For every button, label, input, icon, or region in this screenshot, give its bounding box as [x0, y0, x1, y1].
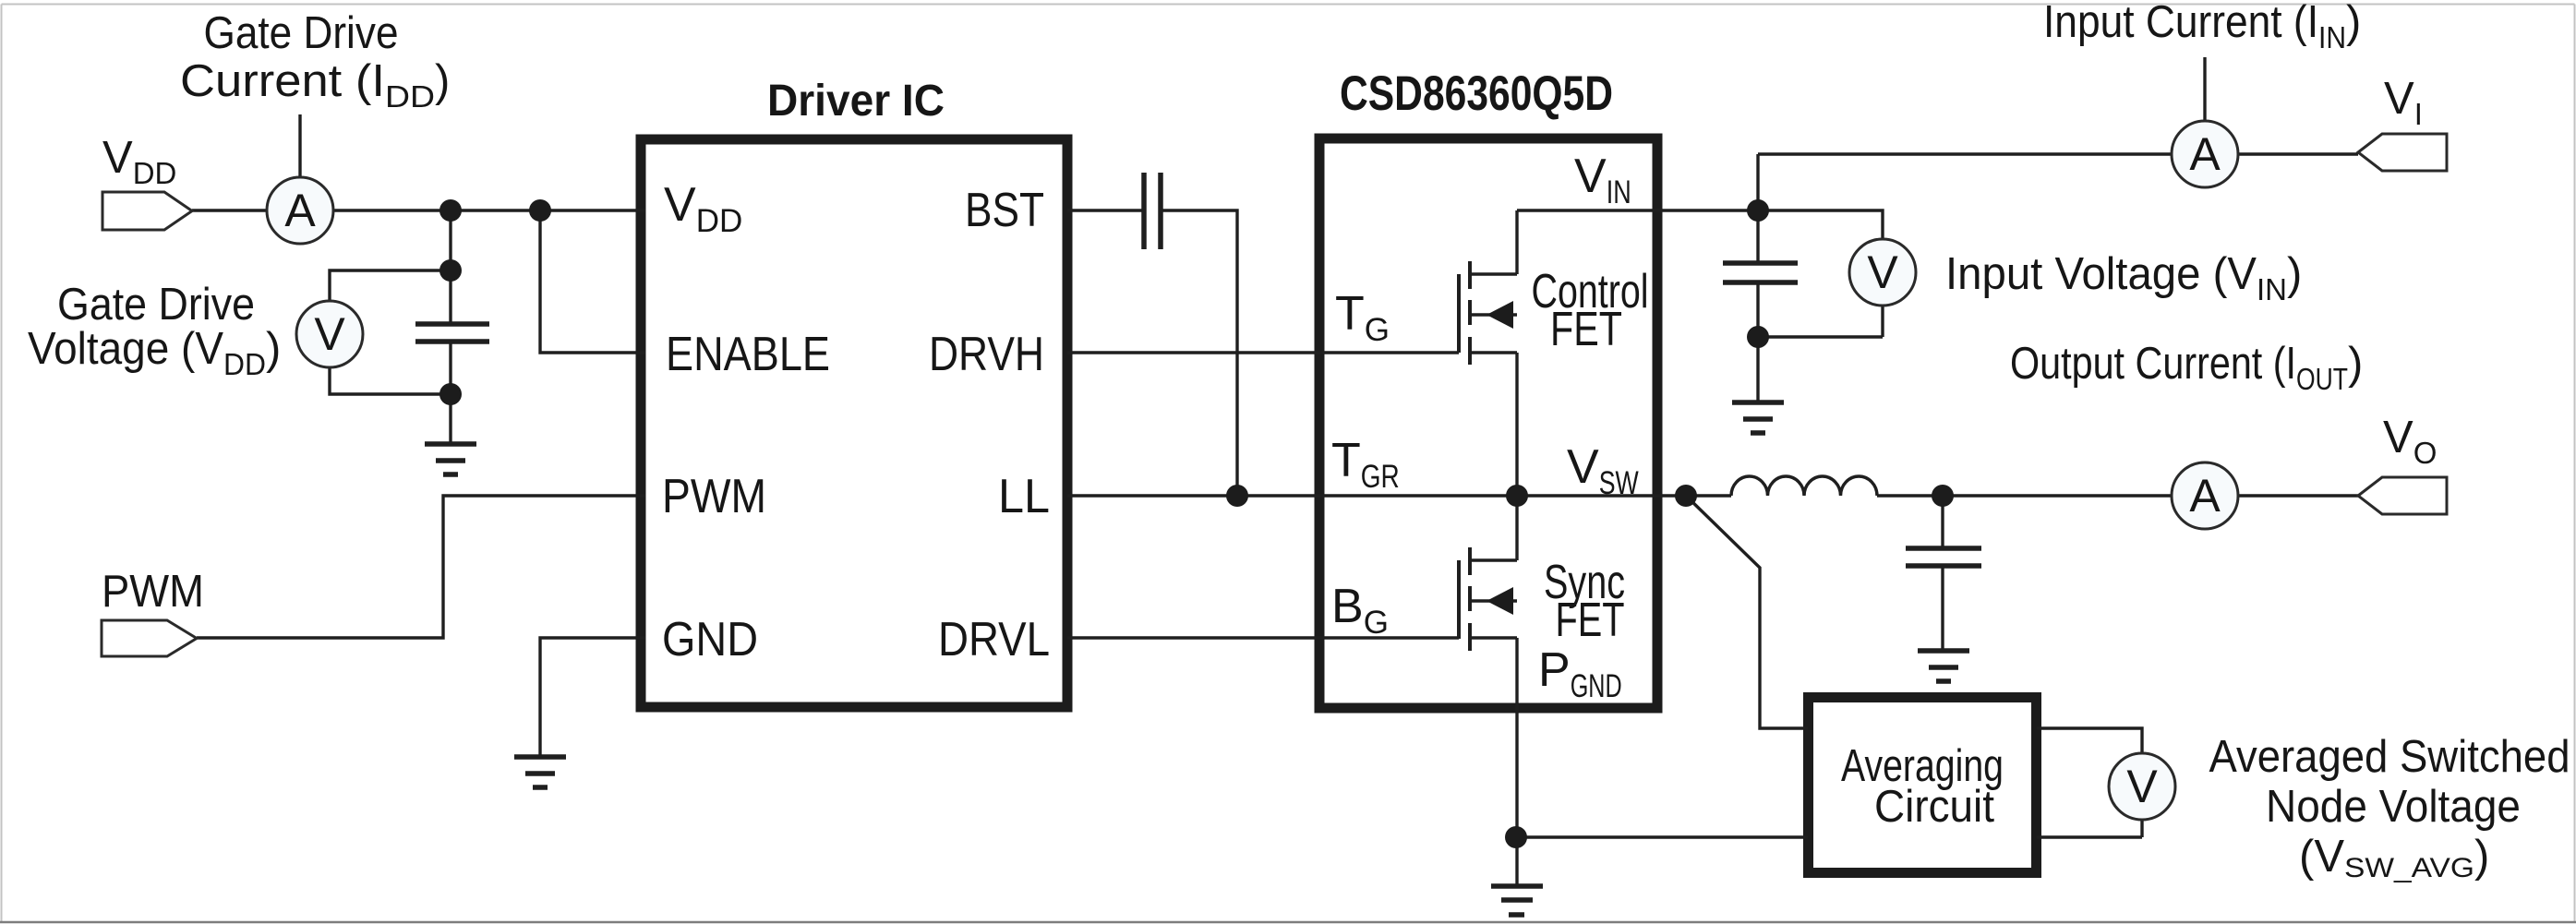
svg-text:Input Voltage (VIN): Input Voltage (VIN) — [1945, 249, 2302, 306]
svg-text:GND: GND — [662, 613, 758, 666]
svg-text:LL: LL — [998, 470, 1050, 523]
svg-text:Circuit: Circuit — [1874, 782, 1994, 832]
svg-text:CSD86360Q5D: CSD86360Q5D — [1340, 66, 1613, 121]
svg-text:PWM: PWM — [662, 470, 766, 523]
svg-text:DRVH: DRVH — [929, 328, 1044, 381]
svg-text:ENABLE: ENABLE — [666, 328, 830, 381]
svg-text:V: V — [2126, 761, 2158, 812]
svg-text:A: A — [2189, 128, 2221, 180]
svg-text:DRVL: DRVL — [938, 613, 1050, 666]
svg-text:A: A — [2189, 470, 2221, 522]
svg-text:Node Voltage: Node Voltage — [2266, 782, 2521, 832]
svg-text:A: A — [284, 185, 316, 236]
svg-text:V: V — [314, 308, 345, 360]
svg-text:Gate Drive: Gate Drive — [204, 8, 399, 58]
svg-text:Input Current (IIN): Input Current (IIN) — [2043, 0, 2361, 54]
svg-text:FET: FET — [1556, 594, 1625, 647]
svg-text:V: V — [1867, 246, 1898, 298]
svg-text:FET: FET — [1550, 303, 1622, 356]
svg-text:PWM: PWM — [102, 567, 204, 617]
svg-text:Gate Drive: Gate Drive — [57, 280, 255, 330]
svg-text:BST: BST — [965, 184, 1044, 237]
svg-text:Driver IC: Driver IC — [767, 77, 945, 126]
svg-text:Averaged Switched: Averaged Switched — [2209, 732, 2570, 782]
